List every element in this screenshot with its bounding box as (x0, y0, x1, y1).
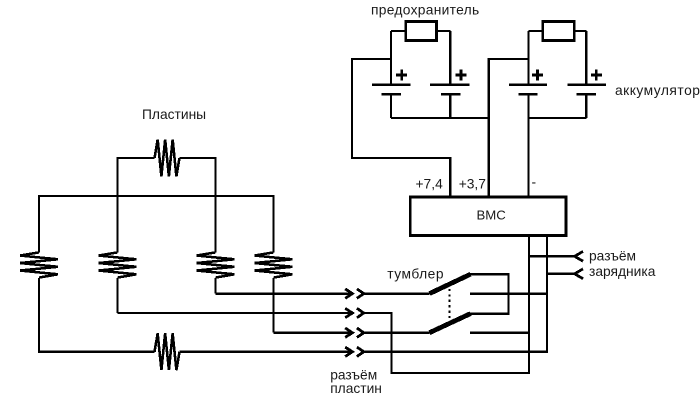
cell B4 long plate (568, 83, 606, 86)
label разъём зарядника (589, 248, 656, 279)
plate P6 (bottom zigzag) (155, 333, 180, 370)
wire BMC bottom right pin chain (546, 236, 548, 352)
battery group 1 top wire (391, 30, 450, 32)
toggle switch blade S1a (430, 274, 471, 293)
connector socket pin 2 (575, 269, 583, 279)
svg-text:+7,4: +7,4 (416, 176, 444, 191)
label предохранитель (371, 2, 479, 17)
wire 2 left (118, 312, 353, 314)
wire top branch left (118, 158, 155, 252)
wire to charger connector pin 1 (529, 255, 575, 257)
fuse F2 (543, 22, 575, 41)
connector socket pin 1 (575, 251, 583, 261)
cell B1 positive lead (390, 31, 392, 85)
connector pin pair wire 4 (345, 347, 364, 356)
wire BMC pin +7,4 tap (352, 59, 450, 197)
plate P2 (99, 252, 137, 277)
svg-text:+3,7: +3,7 (459, 176, 486, 191)
wire 4 left (179, 351, 352, 353)
cell B2 positive lead (449, 31, 451, 85)
connector pin pair wire 3 (345, 328, 364, 337)
svg-text:тумблер: тумблер (387, 266, 444, 281)
label тумблер (387, 266, 444, 281)
wire S1a throw contact to charger chain (470, 292, 547, 294)
cell B3 long plate (509, 83, 547, 86)
wire BMC pin +3,7 riser (489, 59, 529, 197)
label разъём пластин (330, 368, 382, 397)
label +3,7 (459, 176, 486, 191)
wire to charger connector pin 2 (547, 273, 575, 275)
cell B4 short plate (577, 93, 596, 96)
wire joining blade tips (U shape) (470, 274, 509, 313)
label +7,4 (416, 176, 444, 191)
cell B4 positive lead (585, 31, 587, 85)
label Пластины (142, 107, 206, 122)
wire P4 drop to wire 3 (272, 278, 274, 333)
wire 2 right, down and across to BMC minus pin chain (364, 313, 529, 373)
cell B3 negative lead and BMC minus pin (527, 94, 529, 197)
cell B1 plus sign (396, 70, 407, 81)
wire P3 drop to wire 1 (214, 278, 216, 294)
wire top branch right (179, 158, 215, 252)
cell B3 plus sign (532, 70, 543, 81)
svg-text:-: - (532, 175, 537, 190)
plate P4 (255, 252, 293, 277)
cell B4 plus sign (591, 70, 602, 81)
cell B2 plus sign (456, 70, 467, 81)
cell B1 short plate (382, 93, 401, 96)
wire 3 left (274, 332, 353, 334)
BMC box U1 (410, 197, 566, 236)
wire P1 bottom drop (39, 278, 155, 352)
wire 4 right to charger pin chain (364, 333, 547, 352)
cell B2 long plate (430, 83, 469, 86)
toggle switch blade S1b (430, 314, 471, 333)
label BMC (477, 208, 507, 223)
wire 1 left (216, 292, 353, 294)
svg-text:предохранитель: предохранитель (371, 2, 479, 17)
battery group 1 bottom wire (391, 117, 489, 119)
cell B1 long plate (372, 83, 411, 86)
battery group 2 bottom wire (529, 117, 587, 119)
svg-text:разъём: разъём (589, 248, 636, 263)
wire 1 right to switch (364, 292, 430, 294)
svg-text:зарядника: зарядника (589, 264, 656, 279)
plate P5 (top zigzag) (155, 140, 180, 177)
wire BMC bottom left pin chain (528, 236, 530, 374)
cell B3 positive lead (527, 31, 529, 85)
connector pin pair wire 2 (345, 308, 364, 317)
wire P2 drop to wire 2 (116, 278, 118, 313)
connector pin pair wire 1 (345, 289, 364, 298)
fuse F1 (406, 22, 437, 41)
wire S1b throw contact to minus chain (470, 332, 529, 334)
cell B3 short plate (519, 93, 538, 96)
svg-text:BMC: BMC (477, 208, 507, 223)
cell B1 negative lead (390, 94, 392, 118)
wire 3 right to switch (364, 332, 430, 334)
label minus (532, 175, 537, 190)
battery group 2 top wire (529, 30, 587, 32)
cell B2 short plate (441, 93, 461, 96)
plate P3 (197, 252, 235, 277)
plate P1 (20, 252, 58, 277)
svg-text:аккумулятор: аккумулятор (615, 83, 700, 98)
cell B2 negative lead (449, 94, 451, 118)
wire bus (39, 196, 274, 252)
cell B4 negative lead (585, 94, 587, 118)
svg-text:пластин: пластин (330, 381, 382, 396)
svg-text:Пластины: Пластины (142, 107, 206, 122)
toggle switch mechanical link (dotted) (448, 284, 450, 321)
label аккумулятор (615, 83, 700, 98)
